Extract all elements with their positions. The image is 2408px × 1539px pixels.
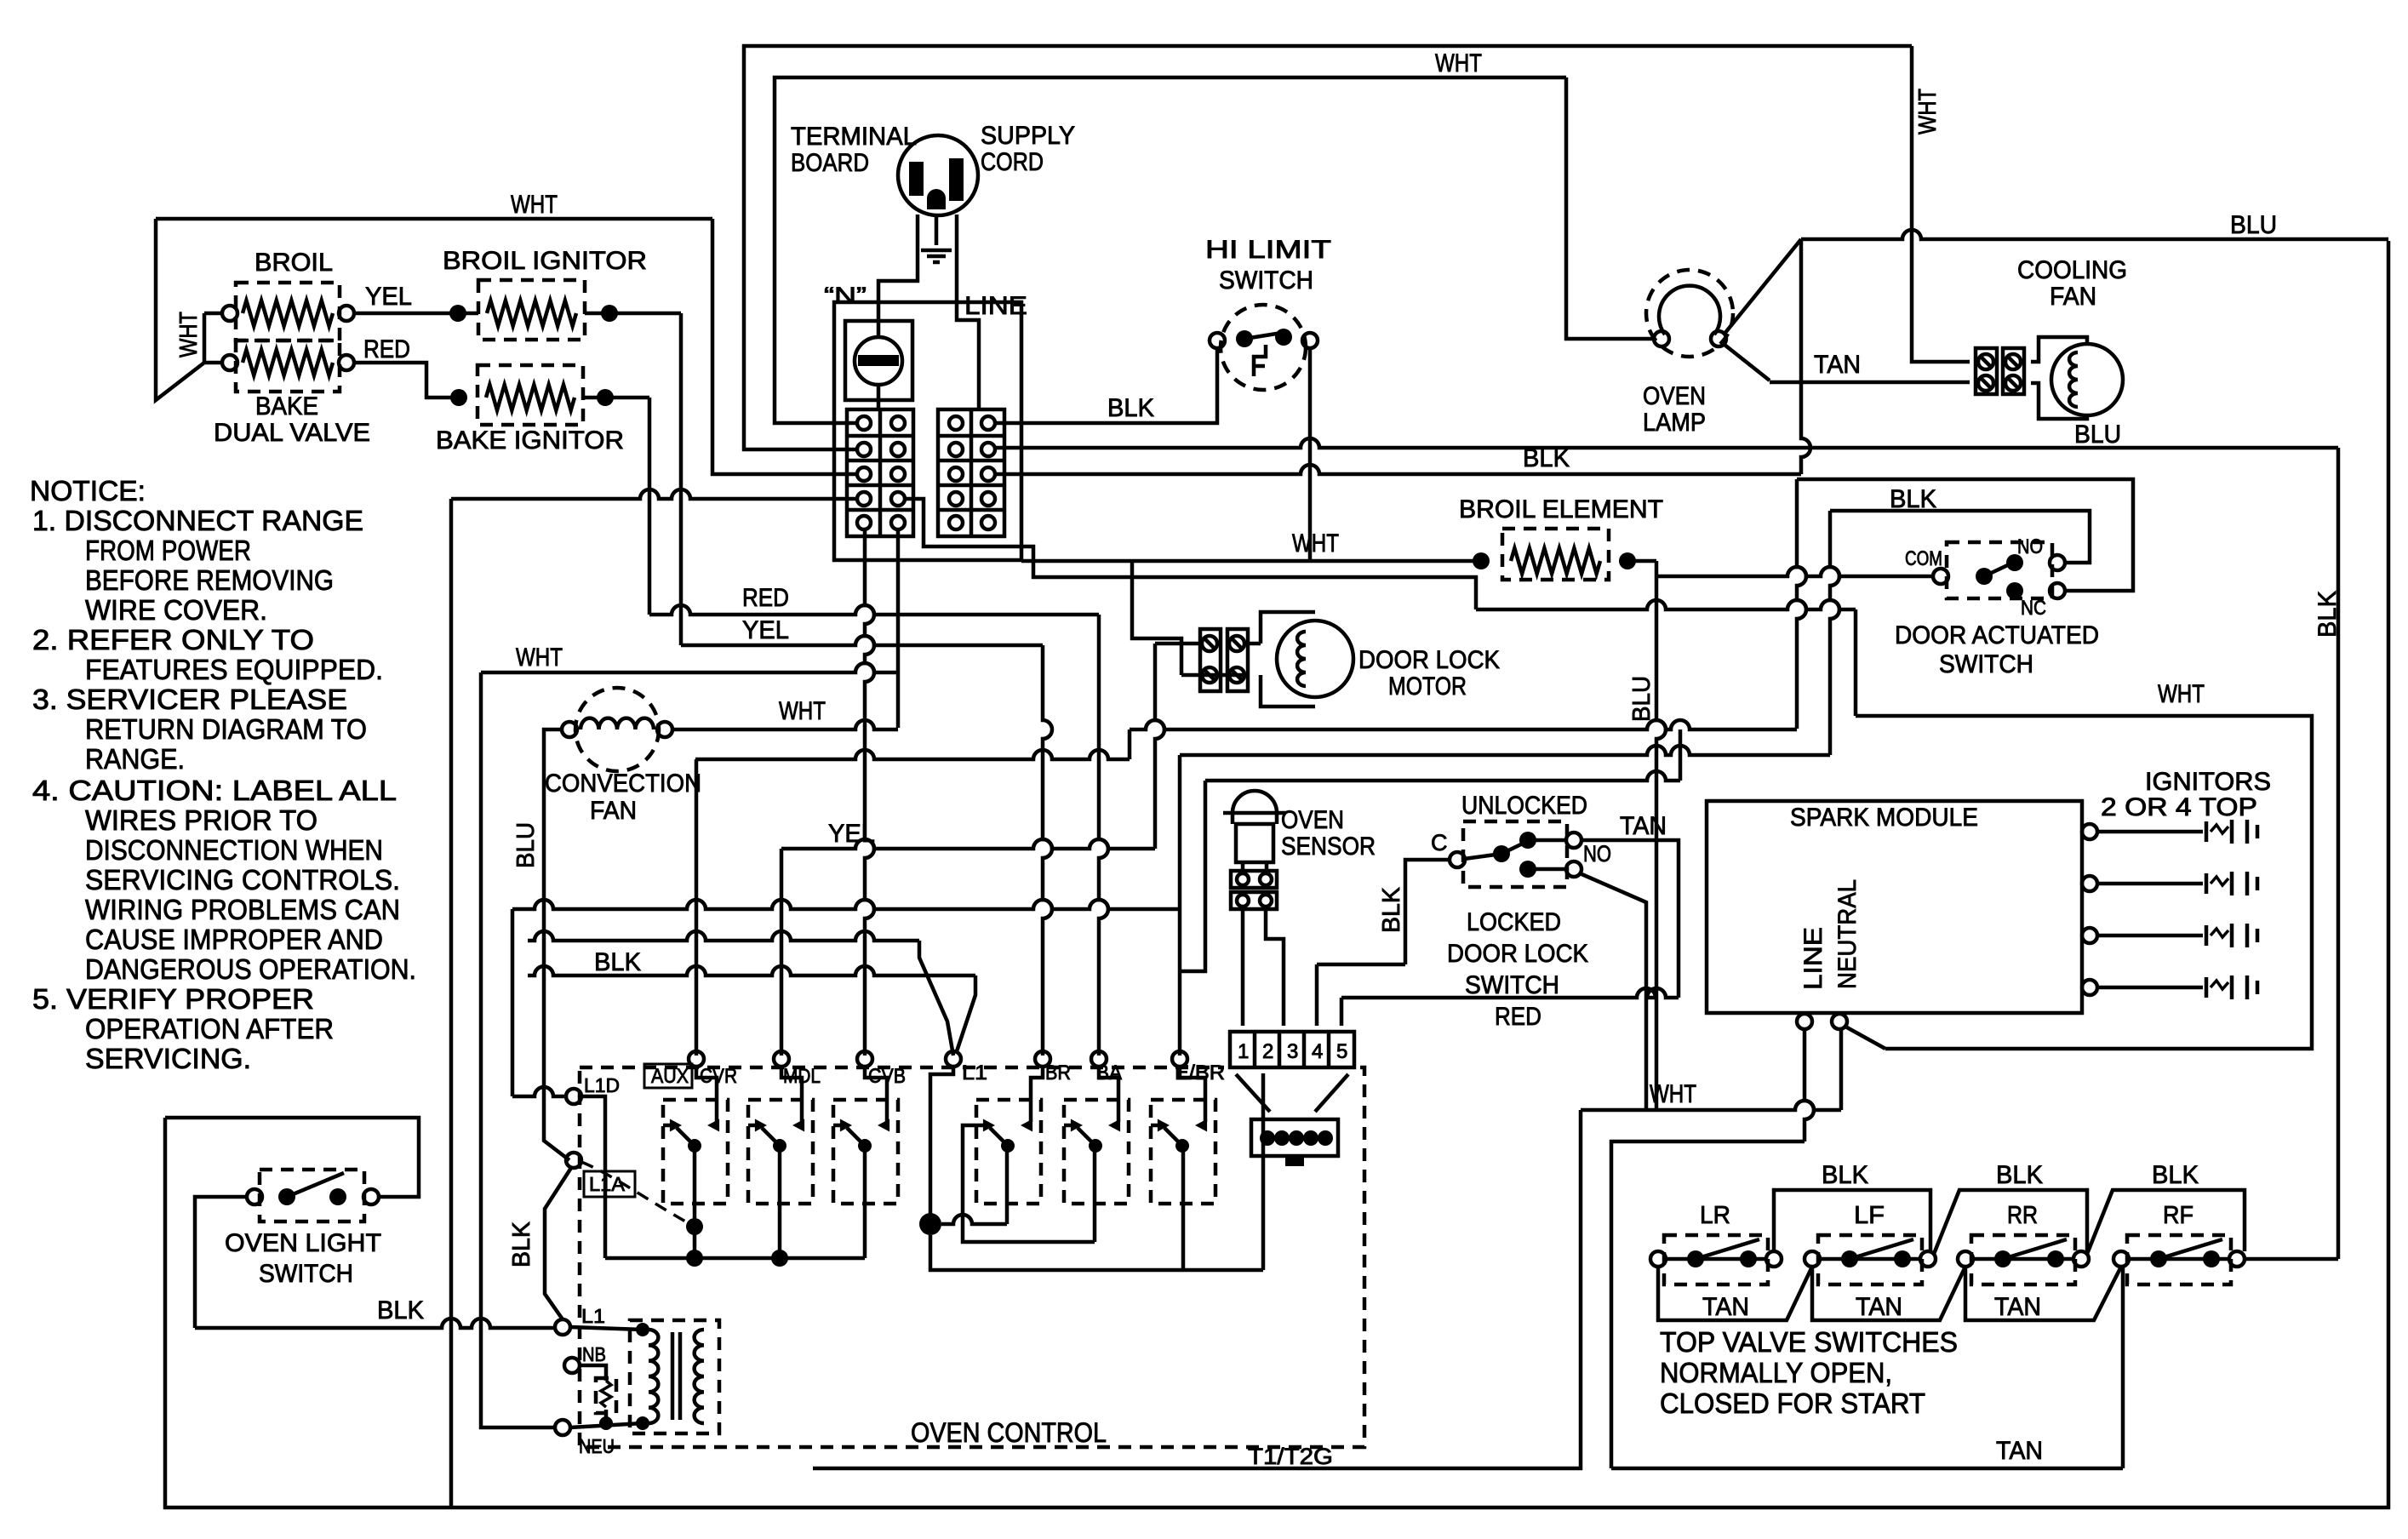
wire YEL2 top segment to connector <box>1155 642 1200 646</box>
contact dot upper right <box>1519 832 1536 849</box>
svg-text:TAN: TAN <box>1814 351 1861 379</box>
wire BR left stub loop <box>963 1125 1095 1242</box>
plug prong right <box>949 158 964 201</box>
wire oven light loop <box>165 1118 419 1197</box>
svg-text:BLK: BLK <box>1996 1161 2043 1189</box>
svg-text:BLU: BLU <box>2230 211 2277 239</box>
svg-text:CAUSE IMPROPER AND: CAUSE IMPROPER AND <box>85 924 383 955</box>
junction dot L1A relay common <box>686 1218 703 1235</box>
terminal oven light right <box>363 1189 379 1204</box>
component CONVECTION FAN dashed circle <box>575 688 659 771</box>
relay MDL body <box>748 1100 813 1204</box>
terminal door actuated NO <box>2050 555 2065 570</box>
svg-text:TAN: TAN <box>1620 812 1667 840</box>
svg-text:CONVECTION: CONVECTION <box>545 769 701 798</box>
svg-text:OVEN CONTROL: OVEN CONTROL <box>911 1417 1107 1448</box>
svg-text:BAKE IGNITOR: BAKE IGNITOR <box>436 426 624 455</box>
wire WHT outer loop of terminal board <box>744 46 1912 449</box>
svg-text:BROIL: BROIL <box>255 249 333 277</box>
svg-text:C: C <box>1431 830 1448 855</box>
terminal broil right <box>339 306 354 321</box>
wire NB to resistor <box>580 1365 606 1381</box>
svg-text:WHT: WHT <box>779 697 826 725</box>
svg-text:E/BR: E/BR <box>1175 1061 1225 1084</box>
wire plug ground stem <box>935 215 939 245</box>
wire RF left drop to TAN line <box>2121 1267 2125 1468</box>
wire long vertical x530 <box>449 499 454 1508</box>
wire WHT spark return <box>1581 1101 1841 1110</box>
terminal convection fan left <box>562 722 577 737</box>
junction dot bake ignitor right <box>597 389 614 406</box>
wire oven lamp feed vertical <box>1566 77 1656 339</box>
relay CVB body <box>833 1100 898 1204</box>
component OVEN LIGHT SWITCH dashed box <box>260 1170 364 1221</box>
wire TAN bracket RR-RF <box>1965 1267 2121 1320</box>
wire door lock top jumper <box>1244 642 1261 646</box>
svg-text:TOP VALVE SWITCHES: TOP VALVE SWITCHES <box>1660 1326 1958 1358</box>
wire ignitor enclosure <box>1856 716 2312 1049</box>
terminal NEU <box>555 1420 570 1435</box>
wire L1 common to BR pivot <box>941 1215 1007 1224</box>
wire TAN to cooling fan <box>1770 380 1970 385</box>
svg-text:2: 2 <box>1262 1040 1273 1063</box>
svg-text:BLK: BLK <box>1378 886 1405 933</box>
oven sensor neck <box>1241 862 1245 871</box>
door lock connector block 2 <box>1227 629 1248 691</box>
svg-text:FAN: FAN <box>2050 283 2096 311</box>
component BAKE IGNITOR dashed box <box>478 365 583 425</box>
oven lamp inner arc <box>1659 286 1720 335</box>
cooling fan connector block 2 <box>2003 348 2024 394</box>
wire NO return <box>1830 511 2090 563</box>
svg-text:BLK: BLK <box>1822 1161 1868 1189</box>
svg-text:DISCONNECTION WHEN: DISCONNECTION WHEN <box>85 834 383 866</box>
relay terminals on oven control <box>689 1051 704 1067</box>
wire plug line drop <box>957 215 979 409</box>
component transformer dashed box <box>630 1320 719 1433</box>
contact dot oven light right <box>329 1188 346 1205</box>
wire oven lamp right diagonal down to TAN <box>1724 345 1770 380</box>
wire WHT drop to terminal row3 <box>712 219 856 474</box>
component valve switch LR <box>1664 1235 1768 1284</box>
svg-text:5. VERIFY PROPER: 5. VERIFY PROPER <box>32 983 314 1015</box>
wire sensor right drop to pin3 <box>1266 909 1284 1026</box>
wire y1068 line <box>512 900 1180 909</box>
wire cooling fan bottom loop <box>2031 383 2087 419</box>
wire L1 right diagonal <box>957 975 975 1051</box>
relay BA terminal drop <box>1099 1067 1118 1122</box>
wire y917 riser to bus <box>1679 729 1683 781</box>
svg-text:HI LIMIT: HI LIMIT <box>1205 236 1331 264</box>
fuse bar <box>858 355 899 366</box>
wire cooling fan top loop <box>2031 337 2087 362</box>
svg-text:L1: L1 <box>581 1305 605 1327</box>
wire door lock bottom jog to WHT line <box>1181 673 1244 678</box>
wire y716 run to ignitor enclosure <box>1476 600 1856 609</box>
hi-limit blade <box>1244 332 1287 339</box>
svg-text:SPARK MODULE: SPARK MODULE <box>1790 804 1978 832</box>
NB resistor zigzag <box>601 1381 611 1407</box>
wire COM feed <box>1656 567 1933 576</box>
svg-text:CORD: CORD <box>981 148 1044 176</box>
wire BLK bracket RR-RF <box>2087 1190 2245 1254</box>
wire oven lamp right diagonal up to BLU corner <box>1724 239 1801 334</box>
wire L1 terminal jog to common dot <box>930 1067 953 1224</box>
wire CVR feed vertical <box>695 759 699 1056</box>
svg-text:OVEN: OVEN <box>1281 806 1344 834</box>
terminal NB <box>564 1358 580 1373</box>
wire spark line diagonal <box>1845 1027 1885 1049</box>
component 5-pin connector block <box>1230 1032 1354 1067</box>
junction dot broil element left <box>1473 552 1490 569</box>
blade C to upper <box>1464 854 1501 859</box>
contact dot lower <box>1519 861 1536 878</box>
wire L1D left segment <box>512 1087 566 1096</box>
svg-text:LF: LF <box>1854 1202 1885 1229</box>
terminal unlocked lower <box>1566 861 1582 877</box>
svg-text:SERVICING.: SERVICING. <box>85 1043 251 1074</box>
wire RED bake to ignitor with jog <box>354 363 451 398</box>
contact dot upper blade <box>1493 845 1510 862</box>
spark module outputs <box>2082 824 2097 839</box>
svg-text:DOOR LOCK: DOOR LOCK <box>1447 940 1588 968</box>
terminal oven lamp left <box>1654 331 1669 346</box>
svg-text:YEL: YEL <box>828 820 875 848</box>
wire YEL ignitor to vertical <box>585 312 681 316</box>
wire MDL feed vertical <box>780 849 784 1056</box>
wire NEU to transformer <box>570 1423 643 1427</box>
svg-text:FROM POWER: FROM POWER <box>85 535 251 566</box>
svg-text:BLK: BLK <box>1890 485 1936 513</box>
wire row4 WHT from oven control vertical <box>451 489 857 499</box>
terminal oven lamp right <box>1711 331 1726 346</box>
svg-text:TAN: TAN <box>1994 1293 2041 1321</box>
relay BR terminal drop <box>1031 1067 1043 1122</box>
svg-text:3: 3 <box>1287 1040 1298 1063</box>
svg-text:NO: NO <box>1583 841 1611 867</box>
relay BA body <box>1064 1100 1129 1204</box>
svg-text:WIRING PROBLEMS CAN: WIRING PROBLEMS CAN <box>85 894 400 925</box>
svg-text:DOOR ACTUATED: DOOR ACTUATED <box>1895 621 2099 649</box>
svg-text:WHT: WHT <box>1435 49 1482 77</box>
svg-text:L1: L1 <box>962 1061 987 1084</box>
wire long vertical x565 to NEU <box>481 672 555 1427</box>
svg-text:RED: RED <box>363 335 410 363</box>
junction dot broil element right <box>1619 552 1636 569</box>
wire WHT right vertical to cooling fan <box>1912 46 1970 362</box>
svg-text:3. SERVICER PLEASE: 3. SERVICER PLEASE <box>32 684 347 715</box>
wire RED to pin5 <box>1340 998 1344 1026</box>
wire door lock bus right segment <box>1130 720 1797 729</box>
wire row1 BLK to hi-limit <box>995 347 1217 423</box>
svg-text:WIRES PRIOR TO: WIRES PRIOR TO <box>85 804 317 836</box>
wire E/BR common drop <box>1181 1146 1186 1270</box>
wire relay common drop CVB <box>863 1146 867 1258</box>
wire convection fan right jog <box>672 720 898 729</box>
svg-text:BLK: BLK <box>508 1221 535 1267</box>
relay BR body <box>976 1100 1041 1204</box>
svg-text:WIRE COVER.: WIRE COVER. <box>85 594 267 626</box>
svg-text:LOCKED: LOCKED <box>1467 908 1561 936</box>
svg-text:OVEN LIGHT: OVEN LIGHT <box>225 1229 381 1257</box>
contact dot hi-limit left <box>1236 330 1253 347</box>
svg-text:UNLOCKED: UNLOCKED <box>1461 792 1587 820</box>
wire WHT left border segment <box>156 219 204 400</box>
hi-limit actuator step <box>1254 345 1266 376</box>
terminal unlocked NO upper <box>1566 832 1582 848</box>
svg-text:BLK: BLK <box>1107 394 1154 422</box>
svg-text:OVEN: OVEN <box>1643 382 1706 410</box>
svg-text:L1D: L1D <box>584 1074 620 1096</box>
svg-text:BROIL IGNITOR: BROIL IGNITOR <box>443 247 647 275</box>
svg-text:BLU: BLU <box>2074 421 2121 449</box>
wire E/BR feed vertical <box>1178 909 1182 1056</box>
component valve switch LF <box>1818 1235 1922 1284</box>
svg-text:SENSOR: SENSOR <box>1281 832 1376 861</box>
terminal bake right <box>339 355 354 370</box>
wire row3 BLK bus <box>995 465 1801 474</box>
svg-text:BLU: BLU <box>1628 676 1656 722</box>
component OVEN CONTROL dashed box <box>580 1067 1364 1447</box>
terminal L1 <box>555 1319 570 1335</box>
component OVEN LAMP dashed circle <box>1646 270 1733 357</box>
component cooling fan motor circle <box>2051 344 2123 415</box>
wire vertical x800 to YEL row <box>679 313 684 645</box>
wire vertical x763 to RED row <box>648 398 652 615</box>
wire WHT to broil element <box>1021 559 1474 564</box>
svg-text:TERMINAL: TERMINAL <box>791 123 917 151</box>
component oven sensor bulb <box>1233 791 1277 824</box>
svg-text:NEU: NEU <box>579 1435 615 1457</box>
oven sensor connector 1 <box>1231 871 1277 888</box>
wire vertical x2116 BLU corner to BLK bus <box>1801 239 1810 474</box>
component door lock motor bracket <box>1261 612 1315 644</box>
wire WHT down to bottom line <box>813 1110 1581 1468</box>
wire y1105 line <box>528 931 919 941</box>
svg-text:LAMP: LAMP <box>1643 409 1706 437</box>
svg-text:BLK: BLK <box>1523 444 1570 472</box>
terminal bake left <box>222 355 237 370</box>
svg-text:SWITCH: SWITCH <box>259 1260 353 1288</box>
wire row5 col1 vertical to CVB <box>865 529 874 1056</box>
wire YEL2 line <box>781 839 1155 849</box>
junction dot bake ignitor left <box>450 389 467 406</box>
wire 917 drop to E/BR jog <box>1180 781 1205 971</box>
svg-text:WHT: WHT <box>516 644 563 672</box>
wire L1D riser <box>511 909 515 1096</box>
svg-text:SUPPLY: SUPPLY <box>981 122 1075 150</box>
svg-text:WHT: WHT <box>2158 680 2205 708</box>
wire L1 to transformer <box>570 1327 643 1330</box>
svg-text:BLK: BLK <box>594 948 641 976</box>
terminal board enclosure box <box>834 302 1021 560</box>
junction dot relay bus 1 <box>686 1250 703 1267</box>
relay CVB terminal drop <box>865 1067 887 1122</box>
terminal convection fan right <box>657 722 672 737</box>
wire BA common drop <box>1093 1146 1097 1242</box>
junction dot L1 common <box>919 1213 941 1235</box>
wire L1 left diagonal <box>919 941 953 1056</box>
contact dot hi-limit right <box>1275 329 1292 346</box>
wire convection fan left to BLU vertical <box>544 729 569 1160</box>
svg-text:LINE: LINE <box>964 292 1027 320</box>
wire resistor to NEU line <box>604 1410 609 1423</box>
wire hi-limit right drop <box>1308 348 1313 561</box>
terminal hi-limit left <box>1210 333 1225 348</box>
wire dual-valve left jumper <box>203 313 207 363</box>
svg-text:DANGEROUS OPERATION.: DANGEROUS OPERATION. <box>85 953 416 985</box>
wire RF right to BLK vertical <box>2245 1257 2338 1262</box>
component BAKE valve dashed box <box>236 340 340 392</box>
svg-text:FAN: FAN <box>590 797 637 825</box>
svg-text:MOTOR: MOTOR <box>1388 672 1467 701</box>
svg-text:RR: RR <box>2007 1202 2038 1229</box>
wire RED center <box>649 605 1099 615</box>
svg-text:RF: RF <box>2163 1202 2194 1229</box>
wire YEL center <box>681 636 1043 645</box>
oven sensor connector 2 <box>1231 892 1277 909</box>
svg-text:4: 4 <box>1312 1040 1323 1063</box>
terminal door actuated COM <box>1933 569 1948 584</box>
wire TAN from NO <box>1582 840 1679 998</box>
svg-text:BLK: BLK <box>2152 1161 2199 1189</box>
svg-text:LR: LR <box>1700 1202 1730 1229</box>
wire NC return <box>1797 479 2133 591</box>
junction dot broil ignitor left <box>449 305 466 322</box>
wire L1 common lower loop <box>930 1235 1263 1270</box>
component valve switch RF <box>2127 1235 2231 1284</box>
component BROIL IGNITOR dashed box <box>478 280 585 340</box>
wire y1146 BLK line <box>528 966 975 975</box>
svg-text:NB: NB <box>582 1343 606 1365</box>
svg-text:WHT: WHT <box>175 312 203 358</box>
component UNLOCKED switch dashed box <box>1463 821 1567 887</box>
svg-text:YEL: YEL <box>742 616 789 644</box>
svg-text:NEUTRAL: NEUTRAL <box>1833 879 1862 989</box>
svg-text:T1/T2G: T1/T2G <box>1248 1444 1333 1469</box>
svg-text:BLK: BLK <box>377 1296 424 1324</box>
svg-text:RED: RED <box>742 584 789 612</box>
svg-text:BEFORE REMOVING: BEFORE REMOVING <box>85 564 334 596</box>
wire BLK bracket LR-LF <box>1774 1190 1930 1251</box>
wire broil element right to BLU vertical <box>1635 559 1656 564</box>
cooling fan connector block 1 <box>1976 348 1997 394</box>
wire relay common bus <box>605 1256 865 1261</box>
svg-text:NO: NO <box>2017 535 2043 558</box>
contact dot door actuated NC <box>2006 582 2023 599</box>
svg-text:BOARD: BOARD <box>791 149 869 177</box>
svg-text:NC: NC <box>2021 597 2046 620</box>
resistor BAKE <box>243 350 333 375</box>
wire YEL broil to ignitor <box>354 312 478 316</box>
wire row2 BLU bus <box>995 438 2338 448</box>
ground symbol <box>921 249 952 253</box>
fuse box <box>845 321 912 400</box>
wire YEL2 riser to door lock motor <box>1155 644 1164 849</box>
wire BLK bracket LF-RR <box>1934 1190 2087 1254</box>
relay CVR terminal drop <box>696 1067 717 1122</box>
svg-text:BLU: BLU <box>512 822 540 868</box>
svg-text:SERVICING CONTROLS.: SERVICING CONTROLS. <box>85 864 400 895</box>
wire BR feed vertical <box>1043 645 1052 1056</box>
terminal spark line <box>1832 1014 1847 1029</box>
relay MDL terminal drop <box>781 1067 802 1122</box>
outer border bottom and right (BLU return) <box>165 241 2388 1508</box>
wire sensor left drop to pin1 <box>1241 909 1245 1026</box>
svg-text:BR: BR <box>1045 1061 1071 1084</box>
svg-text:COM: COM <box>1905 547 1942 570</box>
svg-text:SWITCH: SWITCH <box>1939 650 2033 678</box>
component SPARK MODULE box <box>1707 801 2082 1013</box>
svg-text:1: 1 <box>1238 1040 1249 1063</box>
terminal C <box>1450 852 1465 867</box>
wire E/BR upper vertical <box>1178 755 1182 909</box>
junction dot relay bus 2 <box>771 1250 788 1267</box>
svg-text:FEATURES EQUIPPED.: FEATURES EQUIPPED. <box>85 654 383 685</box>
svg-text:COOLING: COOLING <box>2017 256 2127 284</box>
svg-text:YEL: YEL <box>365 283 412 311</box>
wire TAN bracket LF-RR <box>1812 1267 1965 1320</box>
svg-text:DOOR LOCK: DOOR LOCK <box>1358 646 1500 674</box>
component HI LIMIT SWITCH dashed circle <box>1221 305 1306 390</box>
svg-text:AUX: AUX <box>651 1065 689 1088</box>
wire upper contact to NO terminal <box>1528 838 1566 843</box>
wire TAN bottom long line <box>1611 1467 2123 1471</box>
transformer secondary coil <box>695 1330 704 1423</box>
plug prong left <box>909 162 924 196</box>
component sensor plug <box>1251 1119 1338 1156</box>
svg-text:SWITCH: SWITCH <box>1219 266 1313 295</box>
svg-text:WHT: WHT <box>1914 89 1942 134</box>
oven light blade <box>287 1173 344 1197</box>
wire BLK from C <box>1405 860 1450 964</box>
wire oven light left drop <box>195 1197 247 1328</box>
component BROIL valve dashed box <box>236 283 340 340</box>
svg-text:4. CAUTION: LABEL ALL: 4. CAUTION: LABEL ALL <box>32 775 397 806</box>
wire relay common drop MDL <box>778 1146 782 1258</box>
wire relay common drops AUX <box>693 1146 697 1258</box>
terminal broil left <box>222 306 237 321</box>
door lock connector block 1 <box>1200 629 1221 691</box>
resistor BAKE IGNITOR <box>486 385 575 410</box>
wire door lock bus left segment <box>695 750 1130 759</box>
svg-text:TAN: TAN <box>1996 1437 2043 1465</box>
wire L1A to L1 BLK jog <box>545 1168 571 1319</box>
svg-text:NOTICE:: NOTICE: <box>30 475 146 506</box>
terminal block right <box>938 409 1004 536</box>
terminal hi-limit right <box>1302 333 1318 348</box>
svg-text:NORMALLY OPEN,: NORMALLY OPEN, <box>1660 1357 1892 1388</box>
contact dot door actuated com <box>1976 568 1993 585</box>
terminal L1A <box>566 1153 581 1168</box>
wire y917 line <box>1205 771 1680 781</box>
wire fuse to block <box>877 385 881 409</box>
svg-text:DUAL VALVE: DUAL VALVE <box>214 419 370 447</box>
junction dot broil ignitor right <box>601 305 618 322</box>
svg-text:BAKE: BAKE <box>255 392 318 421</box>
wire L1D to relay bus riser <box>581 1096 605 1258</box>
svg-text:OPERATION AFTER: OPERATION AFTER <box>85 1013 334 1044</box>
contact dot oven light left <box>278 1188 295 1205</box>
cooling fan coil <box>2069 352 2078 407</box>
component valve switch RR <box>1971 1235 2075 1284</box>
wire y887 line E/BR to NO return <box>1180 746 1830 755</box>
svg-text:LINE: LINE <box>1799 927 1827 990</box>
wire terminal board inner loop N <box>775 77 1566 423</box>
svg-text:TAN: TAN <box>1702 1293 1749 1321</box>
svg-text:1. DISCONNECT RANGE: 1. DISCONNECT RANGE <box>32 505 363 536</box>
transformer primary coil <box>649 1330 658 1423</box>
